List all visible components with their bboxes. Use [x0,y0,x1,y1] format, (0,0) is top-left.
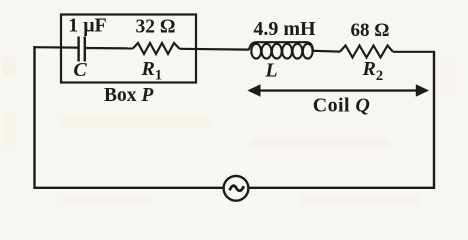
svg-text:32 Ω: 32 Ω [136,16,176,37]
inductor L [249,42,313,58]
wire: capacitor to resistor R1 [86,47,134,50]
Coil Q extent arrow [247,84,429,96]
wire: from top-left corner to capacitor [33,46,78,49]
wire: right vertical of outer loop [433,51,435,189]
svg-text:1 μF: 1 μF [68,15,107,37]
svg-text:Coil Q: Coil Q [313,94,370,116]
svg-text:C: C [73,59,87,81]
box P rectangle [61,15,196,83]
wire: inductor to resistor R2 [313,50,340,53]
svg-text:4.9 mH: 4.9 mH [253,18,316,40]
resistor R2 zigzag [340,46,393,58]
AC source sine symbol [230,186,244,191]
svg-text:Box P: Box P [104,85,154,106]
wire: left vertical of outer loop [33,46,35,188]
svg-text:L: L [264,59,277,81]
svg-text:68 Ω: 68 Ω [351,20,390,41]
wire: resistor R2 to top-right corner [393,51,435,53]
resistor R1 zigzag [133,43,180,54]
AC source circle [224,176,249,201]
capacitor C [79,37,85,62]
wire: bottom horizontal of outer loop [33,187,434,189]
wire: resistor R1 to inductor L [180,48,250,51]
